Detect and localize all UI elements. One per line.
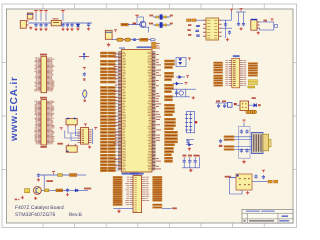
ground of C4 xyxy=(45,28,47,29)
power flag VIN xyxy=(34,10,37,12)
pins of J1 right with labels xyxy=(47,57,55,91)
wire stubs to power flags xyxy=(36,13,46,21)
capacitor C6 xyxy=(67,23,69,25)
resistor R8 xyxy=(44,189,48,192)
diode D6 xyxy=(173,82,183,85)
label under J2 xyxy=(40,146,46,148)
sheet inner frame xyxy=(7,9,294,223)
comparator cluster xyxy=(186,139,194,146)
wires USB data xyxy=(234,137,252,150)
ground of U8 xyxy=(247,191,249,192)
pins of J2 right with labels xyxy=(47,101,55,145)
capacitor C16 xyxy=(196,35,200,36)
net junction marks xyxy=(133,38,136,41)
pins of U1 left side xyxy=(118,52,122,170)
resistor R1 xyxy=(121,23,128,26)
node marker at P2 xyxy=(274,25,277,28)
power flag 5V b xyxy=(44,10,47,12)
wire base xyxy=(128,24,140,26)
power flag right of U8 xyxy=(262,169,265,171)
esd diodes bottom xyxy=(240,148,249,152)
wire base drop xyxy=(43,175,45,189)
power flag termination xyxy=(239,8,242,10)
wire bundle Y1 to U7 xyxy=(65,127,81,141)
wire out of U8 xyxy=(252,180,268,182)
border zone ticks bottom xyxy=(43,223,264,228)
net port left xyxy=(227,103,232,108)
yellow labels right of U4 xyxy=(248,80,258,88)
capacitor C4 xyxy=(45,23,47,25)
ground of C7 xyxy=(71,28,73,29)
bus termination network xyxy=(236,12,246,22)
part number label below U1 xyxy=(122,173,144,175)
capacitor C24 xyxy=(66,188,68,190)
wire main 5V rail xyxy=(29,22,93,24)
ic U8 body xyxy=(236,174,252,190)
capacitor C11 on X1 xyxy=(164,16,167,18)
crystal X2 xyxy=(160,22,163,28)
capacitor C15 xyxy=(195,30,199,31)
ground of C3 xyxy=(40,28,42,29)
capacitor C14 xyxy=(196,25,200,26)
title block text row3 xyxy=(243,220,289,221)
ground of C8 xyxy=(88,27,90,28)
wire into U8 xyxy=(231,176,236,178)
capacitor C25 xyxy=(255,174,257,176)
wire top row bottom-left xyxy=(40,174,70,176)
ferrite bead L1 xyxy=(117,38,123,41)
capacitor C13 on X2 xyxy=(164,24,167,26)
power flag at D6 xyxy=(184,82,187,84)
capacitor C18 xyxy=(229,30,231,32)
net label right lower J4 xyxy=(172,207,177,209)
pins of U7 left xyxy=(78,130,81,143)
resistor R5 xyxy=(58,174,63,177)
svg-text:F407Z Catalyst Board: F407Z Catalyst Board xyxy=(15,205,64,211)
net label Q2 base xyxy=(46,180,53,182)
pins of J2 left with labels xyxy=(34,101,41,145)
power flag reset pullup xyxy=(83,66,86,68)
power flag VBAT xyxy=(135,14,138,16)
ground of C24 xyxy=(66,193,68,194)
boot jumper circuit xyxy=(172,89,196,97)
transistor Q1 xyxy=(140,21,146,27)
esd diodes top xyxy=(240,129,249,133)
pins of P2 xyxy=(257,22,260,28)
inductor L3 xyxy=(246,110,257,113)
net label OSC32_IN xyxy=(149,23,153,25)
capacitor C8 xyxy=(88,23,90,25)
power flag VBUS xyxy=(242,119,245,121)
ferrite bead L2 xyxy=(125,38,131,41)
crystal X1 xyxy=(160,14,163,19)
decoupling caps row C30-C33 xyxy=(182,155,200,168)
wire from R6 xyxy=(77,174,86,176)
wire net right of U3 xyxy=(222,11,232,39)
wire crystal X2 xyxy=(153,24,170,26)
ground of D1 xyxy=(77,27,79,28)
net label red text left of U1 xyxy=(113,54,117,167)
header J2 designator xyxy=(40,97,47,99)
border zone ticks left xyxy=(2,63,7,170)
pins of P1 xyxy=(26,21,28,25)
pin names inside J4 xyxy=(134,177,136,212)
net labels left of J4 xyxy=(113,176,122,205)
resistor network RN1 xyxy=(214,62,223,73)
ground of C23 xyxy=(37,178,39,179)
pin names inside U7 xyxy=(82,129,84,143)
svg-text:Rev.B: Rev.B xyxy=(69,212,83,218)
power flag left of Y1 xyxy=(60,127,63,129)
capacitor C20 xyxy=(243,22,245,24)
header J2 body xyxy=(41,100,47,145)
power flag at U3 right xyxy=(230,8,233,10)
net label red text right of U1 xyxy=(156,54,161,169)
capacitor C10 on X1 xyxy=(156,16,159,18)
wire 3V3 rail lower xyxy=(112,39,150,41)
title block text row2 xyxy=(282,215,288,217)
ground of C2 xyxy=(35,28,37,29)
ground of C5 xyxy=(62,28,64,29)
net label 5V at P2 xyxy=(263,20,267,22)
capacitor C19 xyxy=(238,22,240,24)
feedback wire loop U8 xyxy=(230,177,242,194)
pin names inside U3 xyxy=(207,21,217,39)
pin names inside U1 left column xyxy=(122,52,126,171)
net labels right of J4 xyxy=(153,176,162,201)
svg-text:STM32F407ZGT6: STM32F407ZGT6 xyxy=(15,212,56,218)
ground boot circuit xyxy=(192,96,194,97)
resistor network RN2 xyxy=(214,75,223,86)
pushbutton S1 reset xyxy=(79,53,89,60)
net stub right of D7 xyxy=(258,104,261,106)
wire gnd row J4 xyxy=(113,208,133,210)
net labels right of U8 xyxy=(268,180,278,183)
net label to C15 xyxy=(187,29,190,31)
regulator U2 AMS1117 xyxy=(51,20,61,25)
connector P1 power jack xyxy=(20,21,26,29)
resistor R7 emitter xyxy=(25,189,30,193)
ground after P1 xyxy=(30,26,32,27)
oscillator Y2 body xyxy=(66,144,77,152)
border zone ticks right xyxy=(293,63,297,170)
wire right lower J4 xyxy=(162,208,172,210)
wire into U5 xyxy=(237,104,240,106)
capacitor C21 reset xyxy=(83,72,85,74)
diode D7 xyxy=(254,103,257,107)
capacitor C7 xyxy=(71,23,73,25)
net label OSC32_OUT xyxy=(170,23,173,25)
cluster top right of ladder xyxy=(215,100,228,108)
ic U4 body xyxy=(232,58,240,87)
oscillator Y1 body xyxy=(66,118,77,125)
net label left of U8 xyxy=(225,176,231,178)
ground at J4 xyxy=(118,209,120,211)
header J4 designator xyxy=(130,173,139,175)
net label junction xyxy=(133,23,136,25)
wire crystal X1 xyxy=(153,16,170,18)
capacitor C5 xyxy=(62,23,64,25)
net stub reset cap xyxy=(83,78,85,81)
diode D5 xyxy=(176,75,185,78)
capacitor ladder CL1 xyxy=(185,111,194,132)
power flag 5V a xyxy=(39,10,42,12)
resistor R6 xyxy=(70,174,77,177)
pins of U3 right xyxy=(219,20,222,36)
diode D8 bottom-left xyxy=(75,189,78,192)
net label OSC_IN xyxy=(149,15,153,17)
capacitor C9 bulk electrolytic xyxy=(105,30,112,39)
esd array U6 outline xyxy=(238,123,250,159)
header J4 body xyxy=(133,175,142,212)
resistor R3 xyxy=(187,19,191,21)
wire R3 R4 to U3 xyxy=(196,19,203,21)
border zone ticks top xyxy=(43,4,264,9)
op-amp U3 body xyxy=(206,18,219,40)
net label OSC_OUT xyxy=(170,15,173,17)
power flag right of U7 xyxy=(94,127,97,129)
net labels right of J4 lower xyxy=(153,204,162,208)
ground right of U7 xyxy=(89,145,91,146)
designator U1 small label left xyxy=(119,47,125,49)
node marker ladder xyxy=(195,121,197,123)
net stub below D2 xyxy=(84,99,86,102)
pins of Y1 xyxy=(68,125,75,127)
wire stub 3V3 xyxy=(62,13,64,21)
microcontroller U1 STM32F407ZGT6 body xyxy=(122,50,153,173)
ground of termination xyxy=(240,27,242,28)
wire collector xyxy=(137,17,144,25)
pins of U1 right side xyxy=(152,52,156,170)
header J1 body xyxy=(41,56,47,92)
power flag at C9 xyxy=(114,29,117,31)
ground of C9 xyxy=(108,43,110,45)
ic U5 body xyxy=(240,101,249,111)
wire right of U7 xyxy=(92,129,94,144)
designator U4 label xyxy=(233,55,240,57)
net label to C16 xyxy=(188,34,191,36)
capacitor C23 xyxy=(37,173,39,175)
header J1 designator xyxy=(40,54,47,56)
net label above diode xyxy=(252,97,256,99)
title block text row1 xyxy=(246,211,275,212)
usb connector J3 shield xyxy=(263,134,271,151)
power flag 3V3 out xyxy=(61,10,64,12)
pins of U4 left xyxy=(225,60,231,86)
capacitor C26 xyxy=(262,175,264,177)
power flag at P2 loop xyxy=(270,18,273,20)
connector P2 xyxy=(251,20,257,31)
pins of U3 left xyxy=(203,20,206,36)
net label red small xyxy=(234,103,237,105)
net label to C14 xyxy=(188,24,191,26)
transistor Q2 xyxy=(34,187,42,195)
diode D2 reset xyxy=(83,89,87,98)
wire emitter xyxy=(145,27,149,32)
ground at U3 right xyxy=(227,38,229,39)
ground comparator xyxy=(188,147,190,148)
capacitor C17 xyxy=(225,22,227,24)
cluster right small xyxy=(219,139,226,147)
capacitor C1 vertical electrolytic xyxy=(27,13,33,19)
ground caps row xyxy=(190,168,192,170)
wire collector row xyxy=(41,189,88,191)
net labels right of U1 xyxy=(165,60,178,162)
pins of U4 right xyxy=(240,60,247,86)
ground below esd array xyxy=(243,160,245,162)
ground at R7 xyxy=(21,196,23,197)
pin names inside U4 xyxy=(233,60,236,86)
net label left of Y2 xyxy=(57,143,63,145)
power flag bottom-left xyxy=(52,171,55,173)
power flag at D5 xyxy=(186,75,189,77)
diode pair D3 D4 loop xyxy=(176,58,186,67)
usb connector J3 body xyxy=(252,132,263,153)
capacitor C22 boot xyxy=(176,91,178,93)
capacitor C2 xyxy=(35,23,37,25)
ground at Q2 xyxy=(35,197,37,198)
net labels USB left group2 xyxy=(224,146,234,151)
pin names inside U1 right column xyxy=(148,52,152,171)
power flag above U7 xyxy=(84,123,87,125)
LED D1 power indicator xyxy=(76,23,79,27)
net labels left of U1 xyxy=(100,52,118,172)
resistor R2 xyxy=(140,38,148,41)
title block outline xyxy=(242,209,293,223)
ground of C6 xyxy=(67,28,69,29)
svg-text:www.ECA.ir: www.ECA.ir xyxy=(9,76,20,142)
pins of U7 right xyxy=(89,130,92,143)
net label end of row xyxy=(84,188,91,190)
resistor R9 xyxy=(56,189,63,192)
net labels above U1 right corner xyxy=(152,42,161,48)
wire out of U5 xyxy=(249,104,254,106)
net labels right of U4 xyxy=(248,63,257,77)
capacitor C3 xyxy=(40,23,42,25)
pin labels right of J4 xyxy=(142,177,150,201)
wire loop at P2 xyxy=(260,22,274,30)
capacitor C12 on X2 xyxy=(156,24,159,26)
power flag at diode pair xyxy=(188,57,191,59)
pin labels left of J4 xyxy=(125,177,133,205)
designator U1 label xyxy=(137,46,152,48)
resistor R4 xyxy=(192,19,196,21)
pins of J1 left with labels xyxy=(34,57,41,91)
power port arrow VDD xyxy=(151,39,156,41)
red marks above title xyxy=(15,199,20,201)
net labels USB left group1 xyxy=(224,136,234,141)
ic U7 body xyxy=(81,128,89,145)
ground of P2 xyxy=(257,31,259,32)
